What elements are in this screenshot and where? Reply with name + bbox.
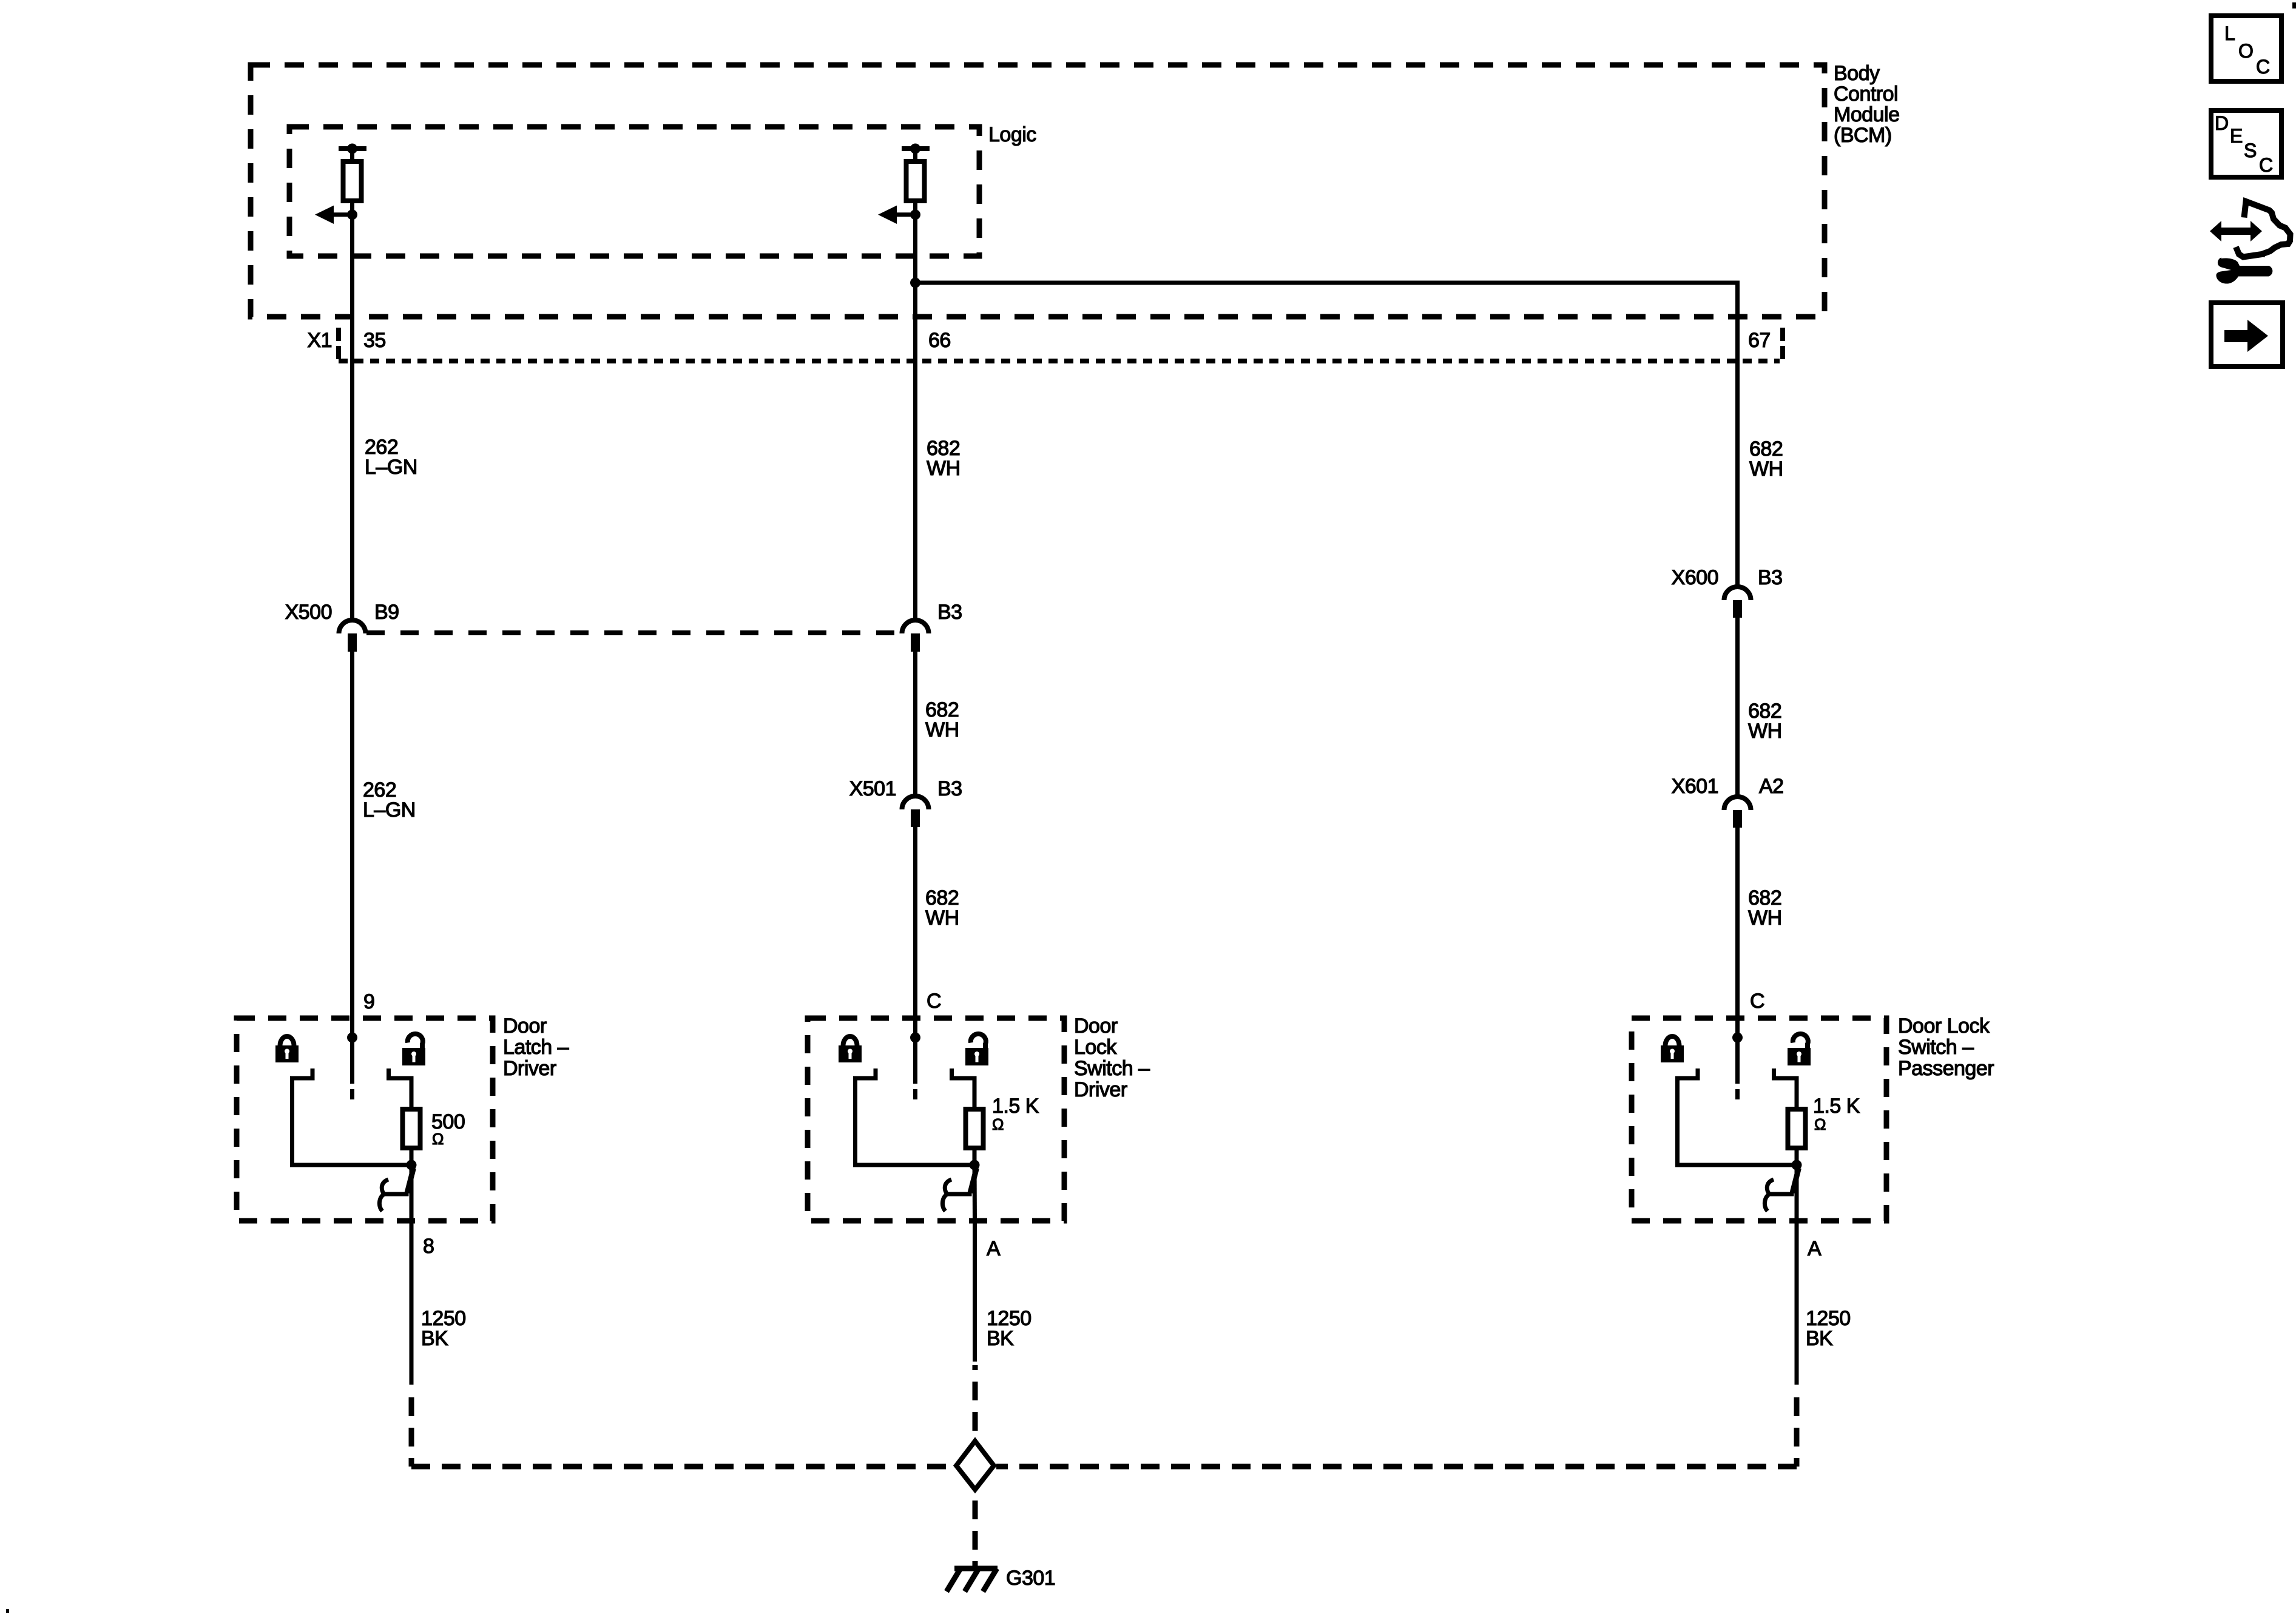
switch arm SW1 xyxy=(407,1168,414,1193)
svg-text:S: S xyxy=(2244,140,2257,161)
label B9 xyxy=(374,601,399,624)
connector X501 pin B3 arc xyxy=(902,796,929,809)
svg-text:C: C xyxy=(1750,990,1764,1013)
wire col2 X501 to switch box xyxy=(913,826,917,1038)
wire SW1 common pole xyxy=(350,1038,354,1099)
Logic dashed box xyxy=(289,127,979,256)
resistor R1 top tap xyxy=(339,144,366,163)
wire col1 vertical (pin 35 down to X500) xyxy=(350,214,354,623)
connector X600 male pin xyxy=(1733,600,1742,618)
label B3 (X501) xyxy=(937,777,962,800)
dashed connector line X500 xyxy=(366,630,901,635)
wire col2 X500 B3 to X501 xyxy=(913,651,917,798)
pin A label col3 xyxy=(1808,1237,1822,1260)
wire label 1250 BK col3 xyxy=(1806,1307,1851,1350)
svg-text:Latch –: Latch – xyxy=(503,1036,569,1059)
svg-text:Door: Door xyxy=(1074,1014,1118,1038)
label B3 (col2 upper) xyxy=(937,601,962,624)
LOC icon box xyxy=(2211,16,2281,81)
pin C label col3 xyxy=(1750,990,1764,1013)
svg-text:WH: WH xyxy=(925,906,959,930)
svg-text:BK: BK xyxy=(421,1327,448,1350)
wire label 1250 BK col1 xyxy=(421,1307,466,1350)
svg-text:Logic: Logic xyxy=(988,123,1036,146)
Door Lock Switch Passenger label xyxy=(1898,1014,1994,1080)
connector X601 pin A2 arc xyxy=(1724,797,1751,810)
svg-text:L–GN: L–GN xyxy=(363,798,416,822)
pin 8 label xyxy=(423,1235,434,1258)
svg-text:Driver: Driver xyxy=(503,1057,556,1080)
svg-text:67: 67 xyxy=(1748,329,1771,352)
switch actuator tick SW3 xyxy=(1768,1192,1794,1197)
Door Latch Driver dashed box xyxy=(237,1018,493,1221)
Logic label xyxy=(988,123,1036,146)
resistor 1.5 K ohm SW3 xyxy=(1788,1109,1806,1148)
node SW3 output junction xyxy=(1792,1160,1802,1170)
pin 67 label xyxy=(1748,329,1771,352)
svg-text:A2: A2 xyxy=(1759,775,1784,798)
label X600 xyxy=(1672,566,1718,589)
dashed ground wire col2 vertical xyxy=(973,1365,978,1436)
unlock padlock icon SW2 xyxy=(965,1034,988,1065)
wire SW2 resistor to node xyxy=(973,1148,977,1165)
wire label 682 WH col2 (middle) xyxy=(925,698,959,741)
switch actuator tick SW1 xyxy=(382,1192,409,1197)
wire SW3 output to box edge xyxy=(1795,1165,1799,1221)
svg-text:BK: BK xyxy=(1806,1327,1833,1350)
svg-text:9: 9 xyxy=(363,990,374,1013)
pin A label col2 xyxy=(987,1237,1001,1260)
svg-text:Ω: Ω xyxy=(1814,1115,1826,1133)
wire label 682 WH col2 (lower) xyxy=(925,886,959,930)
svg-text:C: C xyxy=(2259,154,2273,176)
label X500 xyxy=(285,601,332,624)
svg-text:D: D xyxy=(2215,112,2229,134)
wire SW2 unlock contact branch xyxy=(952,1068,975,1110)
resistor R2 top tap xyxy=(902,144,930,163)
wire SW2 common pole xyxy=(913,1038,917,1099)
Door Latch Driver label xyxy=(503,1014,569,1080)
label X501 xyxy=(849,777,896,800)
node entry junction dot SW2 xyxy=(910,1033,920,1043)
pin 9 label xyxy=(363,990,374,1013)
forward arrow icon box xyxy=(2211,303,2283,366)
wire SW2 output to box edge xyxy=(973,1165,977,1221)
diagnostic car icon: double arrow xyxy=(2210,221,2262,241)
svg-text:B3: B3 xyxy=(937,601,962,624)
switch actuator curve SW1 xyxy=(379,1180,388,1211)
svg-text:B9: B9 xyxy=(374,601,399,624)
svg-text:O: O xyxy=(2238,40,2254,62)
wire label 682 WH col3 (lower) xyxy=(1748,886,1782,930)
wire col3 X601 to switch box xyxy=(1735,827,1740,1038)
ground symbol G301 xyxy=(947,1568,998,1592)
wire resistor R1 to junction xyxy=(350,201,354,214)
wire label 1250 BK col2 xyxy=(987,1307,1032,1350)
Door Lock Switch Passenger dashed box xyxy=(1632,1018,1886,1221)
unlock padlock icon SW1 xyxy=(402,1034,425,1065)
wire SW3 resistor to node xyxy=(1795,1148,1799,1165)
wire SW3 lock contact branch xyxy=(1678,1068,1797,1165)
wire label 682 WH col2 (upper) xyxy=(927,437,961,480)
label 500 ohm xyxy=(431,1110,465,1148)
svg-text:B3: B3 xyxy=(937,777,962,800)
svg-text:Body: Body xyxy=(1834,62,1880,85)
BCM label xyxy=(1834,62,1900,147)
svg-text:L–GN: L–GN xyxy=(365,456,417,479)
wire SW1 unlock contact branch xyxy=(389,1068,412,1110)
label G301 xyxy=(1006,1567,1055,1590)
svg-text:1.5 K: 1.5 K xyxy=(1813,1095,1860,1118)
page corner mark xyxy=(2292,2,2296,8)
switch arm SW3 xyxy=(1792,1168,1799,1193)
wire label 262 L-GN (lower) xyxy=(363,778,416,822)
wire SW1 output to box edge xyxy=(410,1165,414,1221)
node branch junction 66/67 xyxy=(910,278,920,288)
svg-text:WH: WH xyxy=(927,457,961,480)
label A2 xyxy=(1759,775,1784,798)
switch arm SW2 xyxy=(970,1168,977,1193)
svg-text:X501: X501 xyxy=(849,777,896,800)
switch actuator curve SW2 xyxy=(942,1180,951,1211)
svg-text:L: L xyxy=(2224,22,2235,44)
svg-text:Switch –: Switch – xyxy=(1898,1036,1974,1059)
svg-text:WH: WH xyxy=(1748,906,1782,930)
connector X501 male pin xyxy=(911,809,920,827)
resistor R2 (BCM pull-up, middle) xyxy=(907,161,925,201)
wire resistor R2 to junction xyxy=(913,201,917,214)
svg-text:Switch –: Switch – xyxy=(1074,1057,1150,1080)
wire SW2 lock contact branch xyxy=(856,1068,975,1165)
diagnostic car icon: wrench xyxy=(2216,258,2272,284)
wire col1 X500 to latch box xyxy=(350,652,354,1038)
pin 66 label xyxy=(928,329,951,352)
svg-text:A: A xyxy=(1808,1237,1822,1260)
label 1.5 K ohm SW3 xyxy=(1813,1095,1860,1133)
node junction dot left logic xyxy=(347,209,357,220)
svg-text:G301: G301 xyxy=(1006,1567,1055,1590)
svg-text:WH: WH xyxy=(925,718,959,741)
resistor R1 (BCM pull-up, left) xyxy=(343,161,362,201)
DESC icon box xyxy=(2211,110,2281,177)
svg-text:1.5 K: 1.5 K xyxy=(992,1095,1039,1118)
svg-text:Door Lock: Door Lock xyxy=(1898,1014,1990,1038)
resistor 1.5 K ohm SW2 xyxy=(966,1109,984,1148)
pin C label col2 xyxy=(927,990,941,1013)
svg-text:Ω: Ω xyxy=(432,1130,444,1148)
svg-text:WH: WH xyxy=(1748,720,1782,743)
Door Lock Switch Driver dashed box xyxy=(808,1018,1064,1221)
svg-text:B3: B3 xyxy=(1758,566,1783,589)
wire SW1 lock contact branch xyxy=(292,1068,412,1165)
lock padlock icon SW1 xyxy=(275,1036,299,1062)
lock padlock icon SW3 xyxy=(1661,1036,1684,1062)
wire col3 X600 to X601 xyxy=(1735,617,1740,798)
node junction dot middle logic xyxy=(910,209,920,220)
svg-text:Driver: Driver xyxy=(1074,1078,1127,1101)
svg-text:C: C xyxy=(927,990,941,1013)
label B3 (col3 upper) xyxy=(1758,566,1783,589)
node SW2 output junction xyxy=(970,1160,980,1170)
svg-text:Passenger: Passenger xyxy=(1898,1057,1994,1080)
wire SW3 common pole xyxy=(1735,1038,1740,1099)
svg-text:A: A xyxy=(987,1237,1001,1260)
dashed wire diamond to ground xyxy=(973,1491,978,1568)
svg-text:Door: Door xyxy=(503,1014,547,1038)
svg-text:Lock: Lock xyxy=(1074,1036,1117,1059)
wire label 682 WH col3 (upper) xyxy=(1749,437,1783,481)
svg-text:X600: X600 xyxy=(1672,566,1718,589)
connector row X1: right separator xyxy=(1780,328,1785,360)
dashed ground wire col3 vertical xyxy=(1794,1386,1800,1467)
switch actuator curve SW3 xyxy=(1764,1180,1774,1211)
svg-text:66: 66 xyxy=(928,329,951,352)
resistor 500 ohm SW1 xyxy=(403,1109,420,1148)
svg-text:X1: X1 xyxy=(307,329,332,352)
wire label 682 WH col3 (middle) xyxy=(1748,700,1782,743)
svg-text:(BCM): (BCM) xyxy=(1834,124,1892,147)
svg-text:BK: BK xyxy=(987,1327,1014,1350)
dashed ground wire col3 horizontal xyxy=(996,1464,1797,1470)
svg-text:Control: Control xyxy=(1834,83,1898,106)
switch actuator tick SW2 xyxy=(945,1192,972,1197)
svg-text:8: 8 xyxy=(423,1235,434,1258)
page bottom-left dot xyxy=(6,1609,9,1613)
label X1 xyxy=(307,329,332,352)
wire label 262 L-GN (upper) xyxy=(365,436,417,479)
svg-text:X601: X601 xyxy=(1672,775,1718,798)
connector row X1: dotted bottom line xyxy=(339,359,1780,363)
wire horizontal branch to col3 xyxy=(916,283,1738,587)
wire col1 box to ground net xyxy=(410,1221,414,1385)
wire SW1 resistor to node xyxy=(410,1148,414,1165)
svg-text:Ω: Ω xyxy=(992,1115,1004,1133)
node SW1 output junction xyxy=(407,1160,417,1170)
splice diamond S301 xyxy=(956,1441,994,1490)
wire SW3 unlock contact branch xyxy=(1774,1068,1797,1110)
wire col3 box to ground net xyxy=(1795,1221,1799,1385)
arrow (logic input, left) xyxy=(315,206,352,224)
wire col2 box to ground net xyxy=(973,1221,977,1362)
connector row X1: left separator xyxy=(336,328,341,360)
pin 35 label xyxy=(363,329,386,352)
label X601 xyxy=(1672,775,1718,798)
arrow (logic input, middle) xyxy=(878,206,915,224)
label 1.5 K ohm SW2 xyxy=(992,1095,1039,1133)
lock padlock icon SW2 xyxy=(839,1036,862,1062)
connector X500 pin B9 arc xyxy=(339,620,366,633)
svg-text:WH: WH xyxy=(1749,457,1783,481)
connector X601 male pin xyxy=(1733,810,1742,828)
svg-text:X500: X500 xyxy=(285,601,332,624)
svg-text:Module: Module xyxy=(1834,103,1900,126)
node entry junction dot SW1 xyxy=(347,1033,357,1043)
diagnostic car icon: body outline xyxy=(2236,201,2291,257)
svg-text:C: C xyxy=(2256,56,2270,78)
unlock padlock icon SW3 xyxy=(1788,1034,1811,1065)
connector X500 male pin col1 xyxy=(348,633,357,652)
Door Lock Switch Driver label xyxy=(1074,1014,1150,1101)
wire col2 vertical (branch node to X500 B3) xyxy=(913,283,917,623)
svg-text:35: 35 xyxy=(363,329,386,352)
dashed ground wire col1 horizontal xyxy=(411,1464,954,1470)
Body Control Module (BCM) dashed box xyxy=(251,65,1825,317)
node entry junction dot SW3 xyxy=(1732,1033,1743,1043)
dashed ground wire col1 vertical xyxy=(409,1386,414,1467)
wire col2 vertical (junction to branch node) xyxy=(913,214,917,283)
connector X600 pin B3 arc xyxy=(1724,587,1751,600)
connector X500 male pin col2 xyxy=(911,633,920,652)
svg-text:E: E xyxy=(2230,125,2243,147)
connector X500 pin B3 arc (col2) xyxy=(902,620,929,633)
